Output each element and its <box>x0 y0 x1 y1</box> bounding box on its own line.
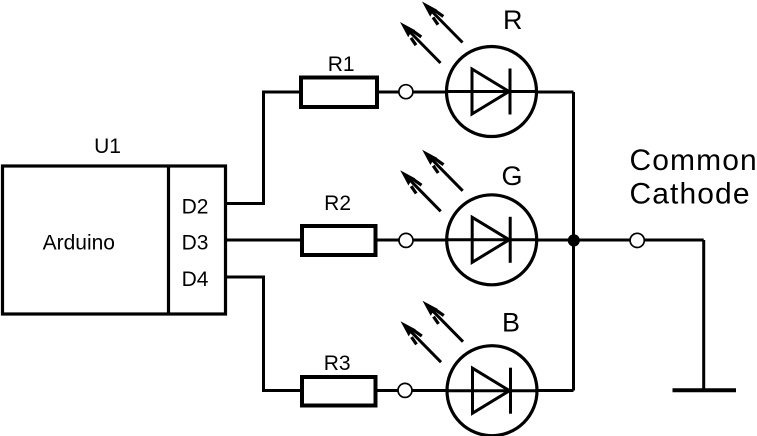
svg-text:Cathode: Cathode <box>630 178 751 211</box>
svg-text:U1: U1 <box>94 135 121 158</box>
svg-text:D3: D3 <box>182 231 209 254</box>
svg-text:D4: D4 <box>182 268 209 291</box>
svg-text:Common: Common <box>630 144 757 177</box>
svg-text:Arduino: Arduino <box>43 232 115 255</box>
svg-text:R: R <box>503 5 523 35</box>
svg-text:R3: R3 <box>324 352 351 375</box>
svg-text:R2: R2 <box>324 192 351 215</box>
svg-text:B: B <box>502 307 520 337</box>
svg-text:D2: D2 <box>182 196 209 219</box>
svg-text:G: G <box>501 161 522 191</box>
svg-text:R1: R1 <box>328 53 355 76</box>
